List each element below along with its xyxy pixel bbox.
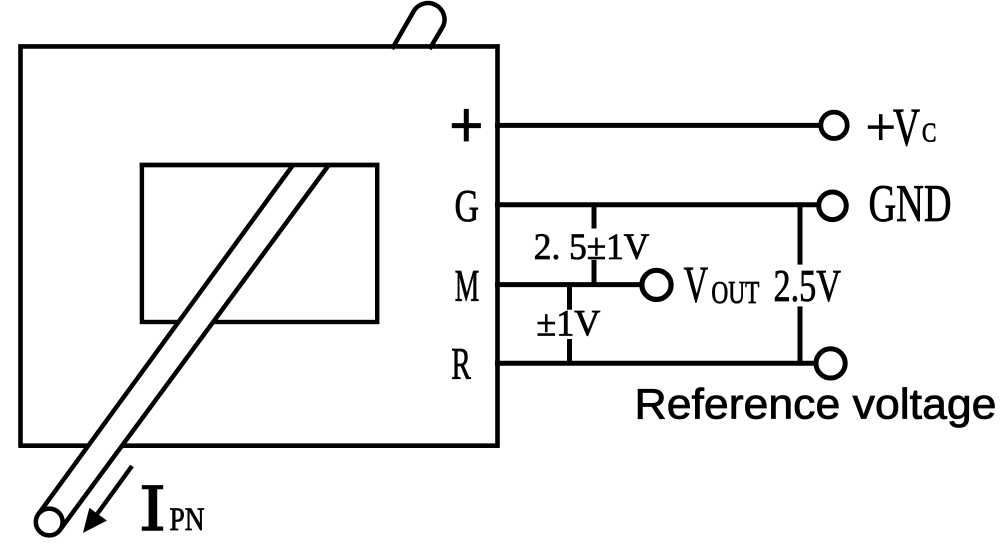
svg-text:+: +: [866, 97, 896, 157]
svg-text:PN: PN: [170, 502, 205, 538]
text backing +-1V: [535, 310, 603, 339]
terminal circle Vout: [642, 270, 671, 299]
svg-text:±1V: ±1V: [536, 304, 600, 345]
svg-text:GND: GND: [869, 175, 952, 233]
svg-text:V: V: [893, 97, 920, 157]
busbar left edge line: [38, 165, 293, 514]
svg-text:OUT: OUT: [711, 275, 759, 310]
wire M to Vout: [495, 282, 656, 287]
wire R reference: [495, 361, 831, 366]
inner window rectangle: [142, 165, 377, 322]
terminal circle reference: [816, 349, 845, 378]
svg-text:2. 5±1V: 2. 5±1V: [534, 227, 650, 268]
svg-text:G: G: [455, 180, 480, 231]
sensor box left top right edges: [21, 46, 498, 445]
busbar top tip outline: [392, 3, 445, 49]
svg-text:M: M: [455, 261, 480, 311]
svg-text:Reference voltage: Reference voltage: [635, 382, 997, 429]
busbar right edge line: [60, 165, 329, 530]
busbar top tip fill: [392, 3, 445, 49]
branch G to M: [592, 205, 597, 285]
branch GND to R: [798, 205, 803, 363]
label I: [142, 487, 163, 530]
current arrow head: [85, 510, 106, 532]
svg-text:V: V: [684, 256, 709, 314]
branch M to R: [567, 285, 572, 364]
sensor box bottom edge: [18, 443, 499, 448]
current arrow line: [95, 466, 132, 517]
window top edge redraw: [140, 163, 380, 167]
wire +Vc: [495, 123, 834, 128]
svg-text:C: C: [922, 117, 936, 147]
busbar end circle: [36, 509, 63, 536]
terminal circle GND: [819, 192, 847, 220]
busbar tube body fill: [35, 165, 328, 536]
pin label plus: [452, 109, 481, 141]
svg-text:2.5V: 2.5V: [774, 260, 842, 311]
text backing 2.5+-1V: [531, 229, 652, 260]
wire GND: [495, 202, 834, 207]
terminal circle +Vc: [821, 112, 847, 138]
text backing 2.5V: [771, 265, 844, 307]
svg-text:R: R: [451, 339, 471, 389]
